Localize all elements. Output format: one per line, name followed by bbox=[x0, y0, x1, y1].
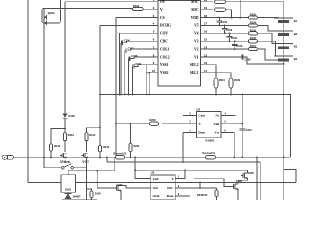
svg-text:V-: V- bbox=[198, 122, 201, 126]
svg-text:V3: V3 bbox=[194, 40, 199, 44]
svg-text:K201: K201 bbox=[65, 189, 72, 192]
battery cell B4 bbox=[274, 56, 297, 61]
svg-text:S-8261: S-8261 bbox=[205, 138, 214, 142]
transistor Q102 bbox=[42, 8, 61, 25]
svg-text:Rsense102: Rsense102 bbox=[114, 153, 127, 156]
switch K201 contact bbox=[62, 160, 74, 169]
svg-text:B3: B3 bbox=[294, 44, 298, 48]
svg-text:CDC: CDC bbox=[160, 40, 168, 44]
wire SOC to B+ bbox=[226, 2, 284, 18]
wire x97 drop bbox=[96, 171, 98, 188]
wire y162 riser bbox=[106, 156, 108, 162]
wire R113 to Q101 bbox=[64, 141, 66, 152]
svg-text:SOC: SOC bbox=[191, 0, 199, 4]
wire SEL1 to R109 bbox=[213, 73, 231, 77]
wire pin3 CS net bbox=[116, 18, 146, 158]
wire P- rail mid bbox=[125, 156, 206, 158]
op-amp U3 box bbox=[151, 171, 176, 200]
wire OV net down bbox=[64, 2, 66, 114]
svg-text:10: 10 bbox=[152, 69, 156, 73]
resistor R202 on OSC bbox=[215, 188, 218, 200]
wire pin2 V- net top bbox=[44, 9, 62, 168]
svg-text:Vss: Vss bbox=[214, 131, 220, 135]
wire switch to Q103 column bbox=[74, 167, 87, 169]
svg-text:U2: U2 bbox=[197, 107, 201, 111]
wire Q101 source down bbox=[64, 156, 88, 158]
wire pin1 OV rail bbox=[65, 1, 158, 3]
capacitor C107 bbox=[124, 47, 158, 95]
transistor Q103 bbox=[81, 153, 89, 164]
wire R109 to bus bbox=[230, 88, 232, 95]
svg-text:Out: Out bbox=[153, 186, 159, 190]
svg-text:VSS2: VSS2 bbox=[160, 71, 169, 75]
capacitor C105b bbox=[242, 54, 251, 61]
svg-text:16: 16 bbox=[204, 30, 208, 34]
svg-text:C206: C206 bbox=[236, 180, 243, 183]
svg-text:COL2: COL2 bbox=[160, 55, 170, 59]
resistor R102 and wire to battery tap bbox=[213, 37, 284, 56]
resistor R104 and wire to battery tap bbox=[213, 21, 284, 31]
resistor R101 bbox=[215, 0, 226, 3]
capacitor C105 bbox=[232, 40, 243, 50]
wire U3 OSC bbox=[175, 183, 216, 189]
svg-text:C201: C201 bbox=[246, 129, 253, 132]
node CS rail junction bbox=[115, 157, 117, 159]
svg-text:1N4007: 1N4007 bbox=[73, 196, 82, 199]
wire x257 drop bbox=[256, 157, 258, 200]
wire D106 to node bbox=[64, 118, 66, 132]
wire y170 line bbox=[134, 169, 247, 178]
svg-text:R201: R201 bbox=[134, 145, 141, 148]
svg-text:12: 12 bbox=[204, 61, 208, 65]
wire VSS1 drop bbox=[145, 65, 147, 96]
transistor C206 bbox=[231, 180, 242, 190]
svg-text:R104: R104 bbox=[250, 21, 257, 24]
wire C205 to C206 link bbox=[238, 178, 247, 184]
svg-text:R105: R105 bbox=[250, 14, 257, 17]
capacitor C106 bbox=[120, 39, 158, 95]
svg-text:R115: R115 bbox=[103, 145, 110, 149]
node V- rail junction bbox=[43, 157, 45, 159]
transistor C203 bbox=[114, 184, 123, 191]
svg-text:B2: B2 bbox=[294, 32, 298, 36]
transistor Q101 bbox=[60, 153, 67, 164]
svg-text:R102: R102 bbox=[250, 37, 257, 40]
wire U2 Vss stub bbox=[221, 133, 235, 159]
svg-text:R112: R112 bbox=[54, 144, 61, 148]
wire branch to R114 bbox=[87, 128, 101, 133]
U1 left pins 1-10 with labels bbox=[146, 0, 171, 75]
svg-text:V5: V5 bbox=[194, 24, 199, 28]
svg-text:K201: K201 bbox=[64, 160, 71, 164]
svg-text:OutL: OutL bbox=[153, 194, 160, 198]
resistor R109 bbox=[229, 78, 240, 88]
svg-text:C102: C102 bbox=[221, 21, 228, 24]
wire R114 to Q103 bbox=[86, 141, 88, 152]
svg-text:OSC: OSC bbox=[167, 186, 174, 190]
svg-text:B1: B1 bbox=[294, 19, 298, 23]
wire VSS bus bbox=[99, 94, 290, 158]
svg-text:V1: V1 bbox=[194, 55, 199, 59]
svg-text:DCHG: DCHG bbox=[160, 24, 171, 28]
resistor R102 bbox=[215, 8, 226, 11]
wire U3 Rout bbox=[175, 195, 190, 197]
svg-text:Q102: Q102 bbox=[48, 11, 55, 15]
node D106 bottom bbox=[64, 128, 66, 130]
resistor Rsense101 bbox=[203, 152, 216, 159]
svg-text:COV: COV bbox=[160, 32, 168, 36]
svg-text:17: 17 bbox=[204, 22, 208, 26]
svg-text:Vdd: Vdd bbox=[213, 122, 219, 126]
wire R110 to bus bbox=[215, 88, 217, 95]
wire Q103 source drop bbox=[86, 159, 88, 200]
wire y162 line bbox=[107, 162, 260, 200]
wire V1 to B- line bbox=[213, 57, 285, 65]
U2 right pin labels bbox=[213, 113, 226, 135]
svg-text:Vdd: Vdd bbox=[153, 177, 159, 181]
wire SEL2 to R110 bbox=[213, 65, 216, 77]
svg-text:18: 18 bbox=[204, 14, 208, 18]
svg-text:VSS1: VSS1 bbox=[160, 63, 169, 67]
svg-text:Nc: Nc bbox=[215, 114, 219, 118]
svg-text:SEL1: SEL1 bbox=[190, 71, 199, 75]
svg-text:19: 19 bbox=[204, 6, 208, 10]
wire P- rail left bbox=[14, 156, 116, 158]
label DS18B20 bbox=[197, 194, 208, 197]
resistor R110 bbox=[214, 78, 225, 88]
transistor C205 bbox=[241, 172, 254, 179]
resistor R105 and wire to battery tap bbox=[213, 14, 284, 20]
svg-text:R110: R110 bbox=[219, 79, 225, 82]
capacitor C108 bbox=[128, 55, 158, 95]
relay coil K201 bbox=[61, 175, 76, 193]
op-amp U2 protection IC S-8261 bbox=[197, 107, 222, 142]
svg-text:14: 14 bbox=[204, 45, 208, 49]
svg-text:20: 20 bbox=[204, 0, 208, 2]
resistor R115 bbox=[98, 145, 110, 152]
wire VSS2 drop bbox=[148, 72, 150, 96]
wire pin4 DCHG net bbox=[100, 25, 146, 145]
svg-text:D104: D104 bbox=[95, 193, 101, 196]
wire U3 Out bbox=[130, 187, 151, 189]
wire branch to R112 bbox=[51, 129, 65, 144]
svg-text:Rout: Rout bbox=[167, 194, 175, 198]
svg-text:R200: R200 bbox=[150, 119, 157, 122]
svg-text:R103: R103 bbox=[250, 29, 257, 32]
svg-text:V4: V4 bbox=[194, 32, 199, 36]
capacitor C103 bbox=[222, 25, 233, 35]
capacitor C102 bbox=[217, 17, 228, 27]
svg-text:COL1: COL1 bbox=[160, 47, 170, 51]
svg-text:13: 13 bbox=[204, 53, 208, 57]
wire SDC tie bbox=[226, 10, 233, 19]
svg-text:CS: CS bbox=[160, 16, 165, 20]
resistor R101 and wire to battery tap bbox=[213, 45, 284, 60]
svg-text:C105: C105 bbox=[236, 45, 243, 48]
wire U2 Nc stub bbox=[221, 115, 235, 117]
battery cell B2 bbox=[274, 31, 297, 36]
node DCHG branch bbox=[99, 127, 101, 129]
resistor R113 bbox=[63, 133, 74, 141]
wire B- loop right bbox=[284, 170, 296, 183]
svg-text:C103: C103 bbox=[226, 29, 233, 32]
capacitor C109 bbox=[132, 63, 159, 95]
svg-text:C109: C109 bbox=[135, 63, 142, 66]
svg-text:C106: C106 bbox=[124, 39, 131, 42]
svg-text:11: 11 bbox=[204, 69, 207, 73]
wire R115 to rail bbox=[99, 152, 101, 159]
wire y183 line bbox=[76, 182, 297, 184]
wire x114 link bbox=[97, 157, 114, 170]
resistor R201 divider bbox=[129, 123, 140, 158]
svg-text:C104: C104 bbox=[231, 37, 238, 40]
resistor Rsense102 bbox=[114, 153, 127, 159]
diode D103 flyback bbox=[65, 194, 82, 200]
wire U2 Dout drop bbox=[182, 133, 184, 163]
wire battery axis bbox=[283, 18, 285, 200]
svg-text:SDC: SDC bbox=[191, 8, 199, 12]
svg-text:Dout: Dout bbox=[198, 131, 206, 135]
svg-text:R101: R101 bbox=[250, 45, 257, 48]
wire pack sense up bbox=[239, 0, 241, 19]
diode D106 bbox=[63, 114, 76, 119]
resistor R200 bbox=[115, 119, 196, 125]
svg-text:SEL2: SEL2 bbox=[190, 63, 199, 67]
capacitor C201 bbox=[239, 94, 252, 159]
wire pin2 rail with bend bbox=[44, 9, 146, 10]
svg-text:15: 15 bbox=[204, 38, 208, 42]
resistor R103 and wire to battery tap bbox=[213, 29, 284, 43]
svg-text:R113: R113 bbox=[68, 133, 75, 137]
svg-text:B4: B4 bbox=[294, 57, 298, 61]
svg-text:OV: OV bbox=[160, 0, 166, 4]
svg-text:R114: R114 bbox=[89, 133, 96, 137]
wire relay bottom bbox=[62, 192, 97, 199]
resistor R112 bbox=[49, 144, 61, 151]
svg-text:C205: C205 bbox=[248, 172, 255, 175]
wire pin5 COV drop bbox=[119, 33, 158, 95]
op-amp U1 battery monitor IC box bbox=[158, 1, 201, 87]
capacitor C104 bbox=[227, 32, 238, 42]
svg-text:C108: C108 bbox=[131, 55, 138, 58]
wire U3 T loop bbox=[175, 169, 186, 178]
svg-text:R109: R109 bbox=[234, 79, 241, 82]
svg-text:Rsense101: Rsense101 bbox=[203, 152, 216, 155]
U3 left pin labels bbox=[153, 177, 160, 198]
svg-text:V2: V2 bbox=[194, 47, 199, 51]
svg-text:Q103: Q103 bbox=[82, 160, 89, 164]
wire Q102 drain to top edge bbox=[60, 0, 62, 8]
svg-text:Cout: Cout bbox=[198, 114, 206, 118]
diode D104 bbox=[87, 189, 102, 200]
svg-text:D106: D106 bbox=[69, 114, 76, 118]
battery cell B3 bbox=[274, 44, 297, 49]
svg-text:U3: U3 bbox=[151, 171, 155, 175]
resistor R114 bbox=[85, 133, 96, 141]
wire C203 links bbox=[121, 186, 130, 200]
wire U3 Vdd bbox=[134, 156, 150, 178]
wire Q101 source to rail bbox=[65, 157, 67, 159]
wire C203 gate link bbox=[97, 187, 114, 189]
svg-text:C109: C109 bbox=[245, 58, 252, 61]
U1 right pins 20-11 with labels bbox=[190, 0, 213, 75]
U3 right pin labels bbox=[167, 176, 180, 199]
wire left bus x28 bbox=[27, 0, 29, 183]
svg-text:R100: R100 bbox=[133, 4, 140, 8]
wire C206 links bbox=[193, 179, 238, 200]
svg-text:DS18C20: DS18C20 bbox=[197, 194, 208, 197]
wire R112 to rail bbox=[50, 151, 52, 158]
U2 left pins bbox=[183, 113, 206, 135]
resistor R100 bbox=[133, 4, 144, 11]
wire corner x28 to relay bbox=[28, 182, 61, 184]
connector P- bbox=[2, 155, 14, 159]
wire U2 Vdd stub bbox=[221, 123, 243, 125]
wire coil top bbox=[68, 170, 98, 175]
svg-text:C107: C107 bbox=[128, 47, 135, 50]
battery cell B1 bbox=[274, 18, 297, 23]
svg-text:VDD: VDD bbox=[191, 16, 199, 20]
wire P- rail right bbox=[216, 156, 291, 158]
